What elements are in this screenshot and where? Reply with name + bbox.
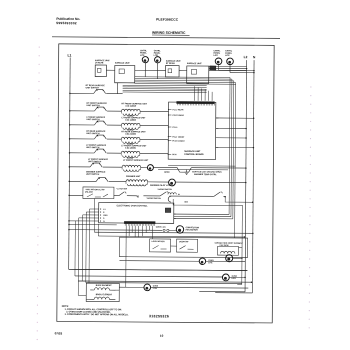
EOC left pin 8 [100, 211, 101, 212]
svg-text:LITE: LITE [225, 55, 230, 57]
EOC left pin GND [100, 214, 101, 215]
wire B2-B3 [135, 69, 166, 71]
wire y276 [75, 276, 222, 277]
control board left pin P2 RT REAR [168, 114, 171, 116]
L2 bus wire [245, 60, 247, 292]
lamp DS6 [169, 179, 176, 186]
comb drop wire h [149, 226, 151, 230]
surface unit box B2 [115, 65, 135, 82]
svg-text:LT REAR: LT REAR [95, 61, 104, 64]
wire box y261 [119, 260, 199, 263]
svg-text:* DOOR SWITCH: * DOOR SWITCH [157, 189, 173, 191]
junction on L1 [69, 110, 71, 112]
junction on L1 [69, 138, 71, 140]
svg-text:LITE: LITE [208, 262, 213, 264]
junction on L1 [69, 152, 71, 154]
svg-text:N: N [253, 55, 256, 59]
svg-text:RT REAR: RT REAR [166, 62, 175, 65]
EOC bottom comb [124, 221, 155, 224]
comb drop wire g [145, 226, 147, 233]
wire S1 out [106, 93, 122, 95]
wire S2 to element [107, 110, 121, 112]
svg-text:WARMER UNIT: WARMER UNIT [126, 175, 141, 178]
switch S3 [94, 121, 106, 125]
svg-text:10: 10 [160, 334, 164, 338]
svg-text:3. COMPONENTS WITH * DO NOT A: 3. COMPONENTS WITH * DO NOT APPEAR ON AL… [65, 313, 129, 316]
right bundle v2 [241, 205, 244, 285]
svg-text:P1 LT REAR: P1 LT REAR [173, 108, 185, 111]
wire B4 to L2 [209, 67, 247, 69]
oven lamp DS7 [199, 258, 205, 264]
harness band lower [123, 84, 207, 87]
svg-text:L2: L2 [244, 55, 248, 59]
comb drop wire f [142, 226, 144, 236]
wire E6 to lamp [141, 166, 148, 168]
switch S1 [94, 89, 106, 93]
svg-text:5995393302: 5995393302 [56, 21, 77, 25]
control board right pin wire 1 [216, 117, 254, 119]
door switch SW9 [214, 192, 222, 197]
switch S2 [95, 107, 107, 111]
svg-text:UNIT SWITCH: UNIT SWITCH [86, 174, 100, 176]
harness drop wires [194, 86, 196, 100]
wire SW9 out [223, 195, 225, 197]
control board left pin P5 RT FRONT [168, 140, 171, 142]
convection element box [217, 246, 238, 255]
comb drop wire b [128, 226, 130, 236]
svg-text:CONTROL BOARD: CONTROL BOARD [184, 153, 204, 156]
riser bake [125, 261, 127, 287]
svg-text:SURFACE UNIT: SURFACE UNIT [115, 62, 131, 65]
header rule [52, 37, 280, 39]
wire L1 to S6 [69, 166, 90, 168]
control board top comb [177, 101, 215, 103]
wire lock box out [114, 195, 119, 197]
wire contacts out [143, 195, 159, 197]
scan artifact dots right [310, 86, 311, 87]
N bus wire [252, 60, 254, 293]
junction on L1 [69, 93, 71, 95]
surface unit box B4 [187, 66, 209, 83]
wire S6 to E6 [103, 166, 122, 168]
wire DS3 down [217, 65, 219, 71]
element E3 [121, 123, 140, 125]
thermal limiter switch [177, 168, 191, 173]
control board right pin wire 3 [216, 137, 246, 139]
wire EOC pin 9 [79, 217, 99, 219]
wire y281 [78, 281, 251, 282]
lock relay box B [177, 239, 198, 252]
lamp DS3 [215, 58, 222, 65]
svg-text:L1: L1 [67, 54, 71, 58]
element E6 [122, 165, 141, 167]
svg-text:P2 RT REAR: P2 RT REAR [172, 114, 184, 117]
junction on L1 [69, 166, 71, 168]
wire L1 to S2 [70, 110, 95, 112]
svg-text:ELECTRONIC OVEN CONTROL: ELECTRONIC OVEN CONTROL [117, 205, 149, 207]
comb drop wire d [134, 226, 136, 237]
switch S6 [90, 163, 102, 167]
wire latch out [127, 195, 137, 197]
EOC left pin N [100, 220, 101, 221]
junction on L1 [68, 195, 70, 197]
lock relay B switch [180, 246, 194, 250]
oven lamp DS9 [144, 284, 151, 291]
wire L1 to S5 [70, 152, 95, 154]
svg-text:LITE: LITE [153, 288, 158, 290]
bake broil box [86, 283, 119, 301]
control board left pin P3 L1 [168, 126, 171, 128]
svg-text:NOTE:: NOTE: [62, 306, 69, 308]
wire row y220 [174, 217, 233, 219]
lock relay A switch [153, 245, 167, 249]
element E4 [121, 137, 140, 139]
surface unit control board box [168, 102, 216, 160]
junction on L1 [68, 220, 70, 222]
wire B2 drop [117, 83, 119, 94]
EOC left pin L1 [100, 208, 101, 209]
step wire lower [173, 199, 242, 205]
wire L1 to S1 [70, 92, 94, 94]
wire S3 to element [107, 124, 121, 126]
control board left pin P1 LT REAR [169, 109, 172, 111]
wire S5 to element [107, 152, 121, 154]
wire DS6 to L2 [175, 181, 245, 183]
svg-text:* LATCH SW: * LATCH SW [116, 187, 127, 190]
svg-text:DOOR SW: DOOR SW [179, 241, 188, 243]
wire E4 to control board [140, 138, 168, 140]
wire EOC pin 8 [86, 211, 98, 213]
convection element coil [221, 251, 235, 253]
wire DS5 out [153, 166, 177, 168]
lock box switch [87, 194, 108, 197]
wire L1 to lock box [69, 194, 83, 196]
control board right pin wire 2 [216, 127, 246, 129]
svg-text:P3 L1: P3 L1 [172, 127, 177, 129]
step wire upper [225, 197, 252, 202]
lamp DS5 [147, 165, 153, 171]
wire DS7 out [206, 260, 246, 262]
left riser b [97, 224, 99, 236]
switch S7 [96, 178, 108, 182]
svg-text:8 IN 2100W: 8 IN 2100W [126, 106, 137, 108]
latch switch [119, 192, 126, 196]
electronic oven control box [99, 203, 174, 224]
wire y259 stub [233, 257, 242, 259]
door switch SW8 [160, 191, 168, 196]
svg-text:GRND: GRND [164, 172, 170, 174]
wire row y217 [174, 215, 231, 217]
wire E7 to lamp [148, 181, 169, 183]
switch S5 [94, 149, 106, 153]
junction on L1 [69, 124, 71, 126]
door lock switch box [83, 187, 114, 199]
wire DS8 out [229, 276, 245, 278]
fan interlock plug [163, 229, 165, 231]
svg-text:SURFACE UNIT: SURFACE UNIT [187, 62, 203, 65]
svg-text:07/03: 07/03 [55, 331, 63, 335]
EOC right pin stubs [174, 213, 176, 215]
control board left pin P4 LT FRONT [168, 136, 171, 138]
control board right pin wire 4 [216, 146, 254, 148]
ground band wire 1 [168, 165, 235, 167]
svg-text:««: «« [184, 200, 188, 204]
switch S4 [94, 135, 106, 139]
wire L1 conv fan [69, 229, 162, 232]
svg-text:6 IN 1250W: 6 IN 1250W [125, 120, 136, 122]
wire EOC pin N to L1 [69, 220, 99, 222]
conv stub y247 [239, 247, 242, 249]
lamp DS4 [227, 58, 234, 65]
wire B4 to N [209, 69, 254, 71]
svg-text:LT FRONT SURFACE UNIT: LT FRONT SURFACE UNIT [123, 159, 149, 162]
wire DS1 down [144, 63, 146, 77]
wire y270 [69, 269, 248, 270]
comb drop wire i [152, 226, 154, 239]
svg-text:6 IN 1250W: 6 IN 1250W [125, 148, 136, 150]
wire lower branch [69, 224, 117, 226]
svg-text:LOCK MOTOR: LOCK MOTOR [152, 241, 166, 243]
svg-text:SURFACE UNIT GROUND WIRES: SURFACE UNIT GROUND WIRES [192, 170, 222, 173]
wire pin9 into broil [78, 294, 86, 296]
svg-text:CONV FAN: CONV FAN [156, 226, 166, 229]
EOC relay component [165, 208, 171, 213]
junction on L1 [68, 224, 70, 226]
svg-text:WARMER PILOT LITE: WARMER PILOT LITE [150, 184, 171, 187]
scan artifact dots left [39, 47, 40, 48]
svg-text:PLEF398CCC: PLEF398CCC [156, 18, 179, 22]
L2 bottom wire [199, 291, 245, 293]
wire L1 to S3 [70, 124, 95, 126]
comb drop wire e [138, 226, 140, 237]
wire B1-B2 [106, 69, 114, 71]
wire S4 to element [107, 138, 121, 140]
oven lamp DS8 [222, 274, 229, 281]
wire lamp row to buses [218, 69, 246, 71]
left riser a [93, 199, 95, 233]
junction on L1 [69, 181, 71, 183]
wire SW8 out [169, 195, 213, 197]
wire E3 to control board [140, 124, 168, 126]
svg-text:UNIT SWITCH: UNIT SWITCH [86, 87, 100, 89]
wire DS9 out [151, 286, 249, 289]
svg-text:P4 LT FRONT: P4 LT FRONT [172, 136, 185, 139]
ground band wire 2 [158, 168, 228, 170]
lock relay box A [150, 239, 171, 252]
svg-text:«: « [136, 194, 139, 199]
svg-text:LITE: LITE [232, 278, 237, 280]
control board left pin P6 N [168, 153, 171, 155]
connector plug [210, 66, 216, 70]
wire EOC pin L1 [90, 208, 99, 210]
wire row y214 [174, 213, 229, 215]
lamp DS2 [155, 57, 161, 63]
riser to DS8 wire [74, 221, 76, 276]
L1 bus wire [69, 58, 70, 270]
svg-text:318255326: 318255326 [149, 314, 169, 318]
wire bake out [115, 289, 119, 291]
element E5 [121, 151, 140, 153]
N bottom wire [215, 292, 252, 294]
wire L1 to S7 [69, 180, 96, 182]
svg-text:BAKE ELEMENT: BAKE ELEMENT [96, 284, 113, 287]
ground symbol [185, 170, 189, 175]
schematic border frame [57, 44, 274, 323]
wire y283 [86, 283, 242, 284]
wire B3-B4 [179, 70, 187, 72]
convection fan motor M2 [226, 255, 233, 262]
svg-text:8: 8 [103, 212, 104, 214]
svg-text:* DOOR SWITCH: * DOOR SWITCH [146, 198, 162, 200]
harness band wires [135, 76, 230, 79]
svg-text:WIRING SCHEMATIC: WIRING SCHEMATIC [152, 31, 186, 35]
wire bake row [119, 286, 144, 288]
wire y284 stub [237, 284, 241, 286]
wire B4 aux [209, 65, 247, 67]
wire R6 to L2 [191, 167, 246, 169]
comb drop wire c [131, 226, 133, 233]
convection fan motor M1 [176, 226, 183, 233]
wire EOC pin GND [83, 214, 99, 216]
svg-text:P6 N: P6 N [172, 154, 177, 156]
wire L1 to S4 [70, 138, 95, 140]
bake element [90, 288, 115, 290]
svg-text:LITE: LITE [213, 55, 218, 57]
element E2 [122, 109, 141, 111]
harness bend wires [228, 77, 231, 214]
svg-text:L1: L1 [103, 209, 105, 211]
wire DS2 down [157, 63, 159, 79]
wire E2 to control board [140, 110, 168, 112]
element E7 [126, 180, 148, 182]
wire relay A-B [171, 245, 177, 247]
svg-text:SURFACE UNIT: SURFACE UNIT [184, 150, 201, 153]
door motor half circle [168, 196, 171, 202]
oven enclosure box [119, 237, 247, 257]
svg-text:GND: GND [103, 215, 108, 217]
EOC left pin 9 [100, 217, 101, 218]
junction on L1 [68, 229, 70, 231]
L1 bottom wire [69, 269, 248, 270]
svg-text:FAN MOTOR: FAN MOTOR [186, 228, 199, 231]
svg-text:9: 9 [103, 218, 104, 220]
broil element [86, 297, 115, 300]
wire row y232 [94, 232, 252, 233]
surface unit box B1 [95, 65, 106, 77]
wire E5 to control board [140, 152, 168, 154]
comb drop wire a [125, 226, 127, 261]
svg-text:P5 RT FRONT: P5 RT FRONT [172, 141, 185, 143]
svg-text:BROIL ELEMENT: BROIL ELEMENT [96, 294, 113, 296]
wire S7 to E7 [109, 181, 126, 183]
wire DS4 down [229, 65, 231, 73]
svg-text:UNLOCK: UNLOCK [85, 191, 94, 193]
lamp DS1 [142, 57, 148, 63]
svg-text:8 IN 2100W: 8 IN 2100W [125, 134, 136, 136]
latch spring [168, 193, 176, 195]
surface unit box B3 [166, 66, 180, 78]
wire row y236 [98, 236, 244, 237]
